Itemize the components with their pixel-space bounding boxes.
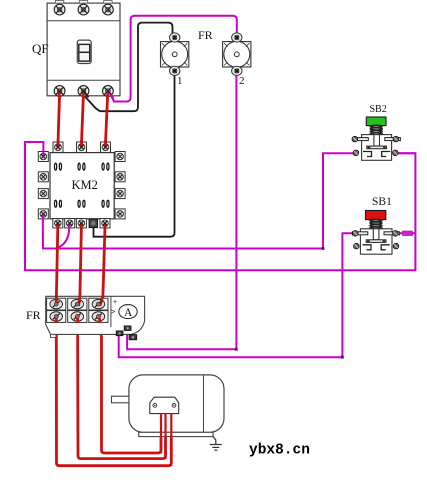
SB2 upper-left screw (352, 136, 358, 142)
junction dot KM2 bus (322, 247, 325, 250)
KM2 right aux terminal c (115, 189, 125, 199)
SB1 moving bridge (366, 240, 386, 243)
wire QF L2 to KM2 3 (82, 93, 84, 143)
wire FR 4 to motor V (78, 322, 166, 459)
ammeter A dial (119, 305, 137, 319)
connector ferrule on SB1 right wire (403, 231, 413, 236)
KM2 top terminal 1 (53, 142, 63, 152)
SB2 upper-right arm (385, 138, 401, 141)
FR terminal 4 (68, 311, 87, 323)
KM2 right aux terminal b (115, 172, 125, 182)
QF terminal screw bottom-2 (78, 86, 89, 97)
wire SB1 upper-right stub to vertical (397, 232, 416, 234)
KM2 top terminal 5 (101, 142, 111, 152)
WIRES-BLACK (84, 23, 175, 237)
svg-text:FR: FR (198, 28, 213, 42)
SB1 upper-right arm (384, 232, 400, 235)
SB2 upper-left arm (353, 138, 369, 141)
SB2 spring (370, 125, 382, 135)
pushbutton SB2 (352, 117, 400, 160)
FR terminal 2 (47, 311, 66, 323)
SB1 upper-right screw (393, 231, 399, 237)
KM2 lower contact ovals pole 2 (78, 200, 85, 207)
motor shaft (112, 396, 129, 403)
KM2 left aux terminal a (38, 152, 48, 162)
fuse FU2 (223, 33, 251, 76)
KM2 left aux terminal b (38, 172, 48, 182)
wire FR 6 to motor W (99, 322, 161, 453)
SB1 lower-right contact hook (381, 245, 390, 250)
SB2 body (362, 135, 392, 161)
KM2 upper contact ovals pole 3 (102, 163, 109, 170)
wire QF L3 to FU2 top (109, 16, 237, 102)
WIRES-MAGENTA (25, 16, 415, 358)
wire KM2 4 to FR 3 (80, 227, 82, 297)
svg-text:QF: QF (32, 41, 49, 56)
FR NC aux terminal (to SB1) (116, 331, 123, 336)
SB2 lower-left screw (353, 150, 359, 156)
SB1 upper-left arm (352, 232, 368, 235)
KM2 right aux terminal a (115, 152, 125, 162)
FR aux body lug (129, 335, 137, 340)
tab above terminal 2 (79, 1, 87, 4)
FR foot left (51, 334, 57, 337)
FR terminal screw slashes overlay (53, 301, 102, 319)
tab above terminal 3 (104, 1, 112, 4)
wire FU1 bottom to KM2 aux (94, 73, 175, 237)
wire QF L1 to KM2 1 (58, 93, 60, 143)
KM2 lower contact ovals pole 3 (102, 200, 109, 207)
FR terminal 6 (89, 311, 108, 323)
svg-text:1: 1 (177, 75, 183, 87)
KM2 bottom terminal 2 (53, 219, 63, 228)
KM2 left aux terminal d (coil A2) (38, 209, 48, 219)
thermal relay FR body (46, 296, 145, 337)
svg-text:SB1: SB1 (372, 196, 392, 208)
KM2 lower contact ovals pole 1 (55, 200, 62, 207)
SB2 moving bridge (367, 146, 387, 149)
FR terminal 3 (68, 298, 87, 310)
contactor KM2 body (50, 153, 114, 219)
svg-text:2: 2 (239, 75, 245, 87)
QF terminal screw bottom-3 (103, 86, 114, 97)
SB2 green cap (366, 117, 386, 126)
SB1 spring (370, 219, 382, 229)
svg-text:+: + (113, 299, 117, 306)
wire SB2 lower-right to SB2 body (399, 152, 416, 154)
junction dot FU2-FR corner (235, 348, 238, 351)
motor lead wires U V W through body (161, 413, 171, 466)
KM2 right aux terminal d (115, 209, 125, 219)
wire KM2 2 to FR 1 (56, 227, 57, 297)
QF terminal screw bottom-1 (54, 86, 65, 97)
FR terminal 1 (47, 298, 66, 310)
SB1 plunger (373, 229, 379, 240)
svg-text:A: A (124, 307, 133, 319)
SB2 lower-left contact hook (363, 152, 372, 157)
wire stubs into FR terminals (56, 297, 103, 324)
SB1 lower-left contact hook (363, 245, 372, 250)
FR NC aux terminal (to FU2) (124, 326, 131, 331)
WIRES-RED (56, 93, 171, 466)
fuse FU1 (161, 33, 189, 76)
QF terminal screw top-1 (54, 4, 65, 15)
KM2 top terminal 3 (77, 142, 87, 152)
KM2 bottom aux terminal (black) (89, 219, 97, 228)
pushbutton SB1 (352, 211, 399, 255)
motor terminal box (150, 397, 179, 413)
QF toggle handle (77, 40, 91, 63)
KM2 upper contact ovals pole 1 (55, 163, 62, 170)
QF bottom screw cross overlays (56, 87, 112, 94)
SB2 lower-right contact hook (382, 152, 391, 157)
QF terminal screw top-2 (78, 4, 89, 15)
wire QF L3 to KM2 5 (106, 93, 108, 143)
SB1 body (360, 229, 392, 254)
SB1 lower-right screw (393, 243, 399, 249)
svg-text:ybx8.cn: ybx8.cn (249, 443, 310, 459)
KM2 screw cross overlays (41, 145, 108, 226)
QF circuit breaker body (47, 1, 120, 96)
wire SB1 upper-left to FR NC terminal (119, 233, 356, 357)
FR terminal 5 (89, 298, 108, 310)
tab above terminal 1 (55, 1, 63, 4)
KM2 left aux terminal c (38, 189, 48, 199)
SB2 upper-right screw (393, 136, 399, 142)
KM2 upper contact ovals pole 2 (78, 163, 85, 170)
wire FU2 bottom to FR heater terminal (127, 73, 236, 349)
motor base plate (139, 432, 213, 436)
wire QF L2 to FU1 top (84, 23, 173, 112)
SB2 plunger (374, 135, 380, 147)
svg-text:FR: FR (26, 308, 41, 322)
QF terminal screw top-3 (103, 4, 114, 15)
wire KM2 6 to FR 5 (103, 227, 105, 297)
SB1 upper-left screw (353, 231, 359, 237)
wire KM2 A2 to SB2 lower-left (43, 153, 355, 248)
junction dot SB1-left corner (341, 356, 344, 359)
wire stubs into KM2 terminals (43, 142, 106, 229)
motor M body (129, 375, 224, 432)
wire KM2 coil-left via left bus to SB2 right net (25, 142, 415, 270)
svg-text:SB2: SB2 (370, 104, 387, 115)
KM2 bottom coil terminal A2 (65, 219, 75, 228)
SB1 lower-left screw (354, 243, 360, 249)
svg-text:>: > (111, 309, 115, 316)
KM2 bottom terminal 4 (76, 219, 86, 228)
svg-text:KM2: KM2 (72, 178, 98, 192)
SB2 lower-right screw (393, 150, 399, 156)
ground symbol (210, 437, 222, 451)
wire FR 2 to motor U (56, 322, 171, 466)
SB1 red cap (366, 211, 386, 220)
wire stubs leaving QF bottom screws (59, 91, 113, 99)
KM2 bottom terminal 6 (100, 219, 110, 228)
